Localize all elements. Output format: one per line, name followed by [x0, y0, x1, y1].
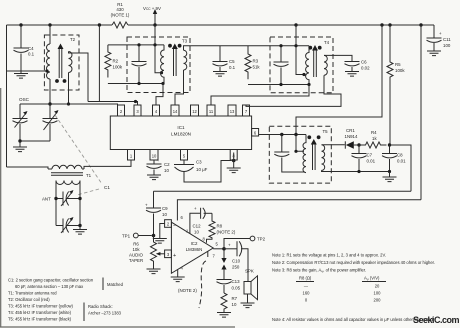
svg-text:0.01: 0.01: [367, 159, 376, 164]
ground ANT: [79, 226, 81, 230]
pin 2 inverting input: [165, 220, 172, 228]
svg-text:100k: 100k: [395, 68, 405, 73]
pin 7: [243, 105, 250, 116]
svg-text:+: +: [173, 253, 176, 259]
svg-text:10 μF: 10 μF: [196, 167, 208, 172]
wire T2 tap to left border: [7, 70, 48, 72]
svg-text:SeekiC.com: SeekiC.com: [413, 315, 460, 325]
svg-text:T3: T3: [182, 39, 188, 44]
svg-text:10: 10: [164, 168, 169, 173]
svg-text:LM1820N: LM1820N: [171, 132, 191, 137]
wire output to C13 with continuation arrows: [223, 251, 225, 259]
transformer T3 phasing dots: [168, 44, 172, 48]
svg-text:Radio Shack:: Radio Shack:: [88, 304, 113, 309]
capacitor C4: [20, 25, 22, 74]
ground pin 8: [227, 168, 241, 173]
capacitor C9: [153, 191, 155, 235]
wire detector ground rail: [322, 170, 390, 171]
capacitor C6: [345, 62, 360, 66]
transformer T4 phasing dots: [308, 46, 312, 50]
transformer T5 phasing dots: [307, 135, 311, 139]
svg-text:(NOTE 1): (NOTE 1): [111, 13, 130, 18]
svg-text:250: 250: [232, 265, 240, 270]
node output junction: [222, 247, 226, 251]
transformer T2 dashed box: [44, 35, 79, 90]
wire T4 primary bottom to pin 11: [211, 85, 309, 106]
transformer T5 primary winding: [303, 135, 306, 173]
wire T2 secondary bottom to OSC rail: [68, 73, 70, 105]
transformer T3 slug arrow: [174, 48, 177, 76]
svg-text:(NOTE 2): (NOTE 2): [217, 230, 236, 235]
svg-text:SPK: SPK: [245, 269, 254, 274]
resistor R2 100k with parallel loop: [105, 45, 111, 78]
node TP1: [138, 235, 151, 237]
node pin8 junction: [232, 159, 236, 163]
wire pin 6 to T5: [259, 134, 306, 136]
svg-text:+: +: [439, 31, 442, 36]
wire T3 primary bottom to pin 4: [156, 84, 163, 106]
pin 3: [134, 105, 141, 116]
svg-text:Note 4: All resistor values in: Note 4: All resistor values in ohms and …: [272, 317, 434, 322]
transformer T4 primary winding: [306, 46, 309, 85]
svg-text:20: 20: [375, 284, 380, 289]
svg-text:R2: R2: [113, 59, 119, 64]
brace NOTE 2 zobel: [199, 261, 206, 308]
node TP1 junction: [152, 234, 156, 238]
table underlines: [296, 281, 386, 283]
svg-text:10: 10: [194, 230, 199, 235]
capacitor C1 oscillator trimmer (left, variable): [19, 104, 21, 141]
svg-text:13: 13: [230, 109, 235, 114]
ground C4: [14, 74, 28, 79]
transformer T5 slug arrow: [313, 144, 316, 171]
transformer T4 dashed box: [270, 37, 333, 93]
pin 10: [150, 150, 158, 161]
svg-text:CR1: CR1: [346, 128, 355, 133]
scan edge artifacts: [0, 88, 235, 328]
node TP2: [224, 239, 250, 249]
resistor R4 1k: [359, 142, 387, 148]
wire Vcc drop to T4 tap: [296, 25, 304, 75]
capacitor C3 10uF: [183, 160, 185, 165]
pin 6: [252, 129, 259, 137]
svg-text:T4: T4: [324, 40, 330, 45]
svg-text:(NOTE 2): (NOTE 2): [178, 288, 197, 293]
svg-text:0.05: 0.05: [232, 286, 241, 291]
wire OSC bottom: [20, 140, 50, 142]
svg-text:C6: C6: [361, 60, 367, 65]
capacitor T5 tank: [282, 135, 305, 173]
svg-text:0.1: 0.1: [229, 65, 236, 70]
wire audio takeoff (node to wire A): [390, 145, 412, 191]
capacitor stage2 tank: [280, 46, 282, 85]
node AGC: [388, 143, 391, 146]
wire C10 to speaker: [241, 249, 248, 282]
op-amp U2 triangle IC2 LM386N: [171, 222, 213, 273]
transformer T2 primary winding: [49, 25, 51, 44]
svg-text:T2: Oscillator coil (red): T2: Oscillator coil (red): [8, 297, 50, 302]
svg-text:T1: Transistor antenna rod: T1: Transistor antenna rod: [8, 291, 57, 296]
svg-text:10: 10: [232, 302, 237, 307]
svg-text:+: +: [194, 206, 197, 211]
speaker SPK: [244, 282, 251, 295]
wire T4 secondary top to C6: [324, 55, 352, 61]
transformer T1 core: [51, 173, 83, 176]
wire OSC rail to IC pin 2: [20, 103, 118, 105]
pin 14: [171, 105, 179, 116]
svg-text:C11: C11: [443, 37, 451, 42]
node detector: [357, 143, 360, 146]
svg-text:C8: C8: [397, 153, 403, 158]
wire pin2 to ground: [160, 224, 165, 239]
svg-text:R7: R7: [232, 296, 238, 301]
svg-text:R4: R4: [371, 130, 377, 135]
capacitor C1 antenna section (variable): [56, 198, 80, 200]
svg-text:T3: 455 kHz IF transformer (ye: T3: 455 kHz IF transformer (yellow): [8, 304, 74, 309]
wire ANT tank rails: [56, 181, 80, 226]
svg-text:200: 200: [374, 298, 382, 303]
capacitor C5: [219, 46, 221, 72]
svg-text:C1: 2 section gang capacitor,: C1: 2 section gang capacitor, oscillator…: [8, 278, 94, 283]
svg-text:T5: T5: [323, 129, 329, 134]
pin 3 noninverting input: [165, 250, 172, 258]
wire stage2 tank bottom: [248, 84, 309, 86]
svg-text:+: +: [228, 243, 231, 248]
wire stage1 tank top: [108, 44, 164, 46]
svg-text:R5: R5: [395, 62, 401, 67]
svg-text:Matched: Matched: [107, 282, 124, 287]
IC op-amp U1 body IC1 LM1820N: [110, 116, 251, 150]
pin 2: [118, 105, 125, 116]
wire top Vcc bus: [7, 24, 435, 26]
wire Vcc line to T5 tap: [296, 135, 304, 152]
ground C6: [345, 72, 359, 77]
wire gang tuning dashed link: [55, 115, 102, 195]
svg-text:→: →: [156, 159, 160, 163]
transformer T4 secondary winding: [324, 55, 327, 75]
resistor R7: [221, 293, 227, 313]
transformer T3 dashed box: [127, 37, 190, 93]
svg-text:R8 (Ω): R8 (Ω): [299, 276, 312, 281]
capacitor C2: [153, 160, 155, 175]
svg-text:C4: C4: [28, 46, 34, 51]
pin 4: [153, 105, 160, 116]
wire A audio to volume: [154, 190, 412, 192]
transformer T3 secondary winding: [184, 50, 187, 70]
svg-text:AUDIO: AUDIO: [129, 253, 143, 258]
svg-text:T4: 455 kHz IF transformer (wh: T4: 455 kHz IF transformer (white): [8, 310, 72, 315]
svg-text:C9: C9: [162, 206, 168, 211]
svg-text:Note 1: R1 sets the voltage at: Note 1: R1 sets the voltage at pins 1, 2…: [272, 253, 386, 258]
svg-text:IC2: IC2: [191, 241, 198, 246]
capacitor C12: [201, 208, 206, 219]
svg-text:160: 160: [303, 291, 311, 296]
svg-text:OSC: OSC: [19, 97, 30, 102]
svg-text:430: 430: [116, 7, 124, 12]
svg-text:60 pF, antenna section – 130 p: 60 pF, antenna section – 130 pF max: [15, 284, 84, 289]
transformer T2 secondary winding: [69, 52, 73, 73]
wire T4 secondary bottom to pin 7: [246, 75, 341, 106]
svg-text:C5: C5: [229, 59, 235, 64]
pin 8: [230, 150, 237, 161]
svg-text:−: −: [173, 223, 176, 229]
svg-text:R6: R6: [133, 242, 139, 247]
diode CR1 1N914: [344, 141, 346, 148]
pin 11: [207, 105, 215, 116]
wire pin3 net from T2: [88, 102, 138, 106]
wire left border to T1 primary: [7, 167, 49, 169]
svg-text:0.1: 0.1: [28, 52, 35, 57]
svg-text:T5: 455 kHz IF transformer (bl: T5: 455 kHz IF transformer (black): [8, 317, 72, 322]
svg-text:1N914: 1N914: [345, 134, 358, 139]
wire left border: [6, 25, 8, 167]
ground pin4: [171, 277, 185, 282]
svg-text:100: 100: [374, 291, 382, 296]
ground C5: [213, 72, 227, 77]
ground pin2: [153, 239, 167, 244]
svg-text:0.01: 0.01: [397, 159, 406, 164]
wire bus right drop to audio V+ (x=421): [420, 25, 422, 200]
resistor R3 51k: [245, 46, 251, 79]
svg-text:C10: C10: [232, 259, 241, 264]
capacitor C11: [433, 25, 435, 51]
pin 1 gain: [190, 213, 200, 233]
svg-text:12: 12: [192, 109, 197, 114]
svg-text:C2: C2: [164, 162, 170, 167]
svg-text:C13: C13: [232, 279, 241, 284]
wire T3 secondary top / interstage to T4: [184, 46, 310, 51]
ground C2: [147, 175, 161, 180]
svg-text:TAPER: TAPER: [129, 258, 143, 263]
svg-text:ANT: ANT: [42, 197, 51, 202]
bracket matched: [102, 278, 104, 291]
svg-text:0.02: 0.02: [361, 66, 370, 71]
ground speaker: [247, 294, 249, 303]
transformer T3 primary winding: [161, 45, 164, 84]
svg-text:T2: T2: [70, 37, 76, 42]
wire bus-to-pin6 drop (x=382 to y=117 then left to 296): [296, 25, 382, 133]
resistor R5 100k: [389, 25, 391, 144]
svg-text:14: 14: [173, 109, 178, 114]
svg-text:100: 100: [443, 43, 451, 48]
capacitor stage1 tank: [138, 45, 140, 84]
wire T3 secondary bottom to pin 14: [175, 70, 184, 105]
capacitor C7: [358, 145, 360, 172]
parts list text: [8, 278, 124, 322]
capacitor C1 oscillator section (right, variable): [49, 104, 51, 141]
resistor R8: [207, 213, 216, 243]
wire B V+ to pin 6 of amp: [177, 200, 421, 221]
ground R6: [153, 268, 155, 270]
transformer T2 phasing dots: [55, 79, 59, 83]
wire Vcc drop to T3 tap: [155, 25, 161, 73]
svg-text:VCC + 9V: VCC + 9V: [143, 6, 161, 11]
resistor R6 10k AUDIO TAPER potentiometer: [151, 236, 157, 268]
node junction dots on bus: [19, 23, 22, 26]
ground R7: [217, 313, 231, 318]
svg-text:C7: C7: [367, 153, 373, 158]
svg-text:C3: C3: [196, 160, 202, 165]
pin 1: [128, 150, 135, 161]
svg-text:LM386N: LM386N: [186, 247, 203, 252]
svg-text:IC1: IC1: [177, 125, 185, 130]
svg-text:Archer –273 1383: Archer –273 1383: [88, 311, 122, 316]
wire T2 secondary top to pin3 net: [69, 52, 89, 102]
pin 5: [181, 150, 188, 161]
svg-text:C12: C12: [192, 224, 201, 229]
ground detector: [389, 172, 391, 178]
capacitor C13: [217, 280, 232, 284]
capacitor C8: [389, 145, 391, 172]
svg-text:TP2: TP2: [257, 237, 266, 242]
svg-text:+: +: [145, 203, 148, 208]
power Vcc +9V arrow: [154, 13, 156, 25]
svg-text:100k: 100k: [113, 65, 123, 70]
wire pin 1 to T1: [84, 160, 131, 169]
wire bus drop to pin3 net: [98, 25, 100, 102]
svg-text:10k: 10k: [132, 247, 140, 252]
transformer T4 slug arrow: [314, 50, 317, 78]
svg-text:10: 10: [162, 212, 167, 217]
resistor R1: [112, 22, 128, 28]
pin 13: [228, 105, 236, 116]
ground OSC: [19, 141, 21, 147]
svg-text:51k: 51k: [253, 65, 261, 70]
transformer T5 secondary winding: [322, 145, 325, 171]
transformer T2 slug arrow: [59, 48, 62, 78]
transformer T1 primary winding: [48, 165, 84, 169]
svg-text:C1: C1: [104, 185, 110, 190]
transformer T1 secondary winding: [56, 181, 80, 185]
capacitor C10: [224, 248, 237, 250]
svg-text:11: 11: [209, 109, 214, 114]
svg-text:1k: 1k: [372, 136, 377, 141]
bracket radio shack: [83, 303, 85, 322]
svg-text:R3: R3: [253, 59, 259, 64]
svg-text:T1: T1: [86, 173, 92, 178]
capacitor C1 antenna trimmer (variable): [56, 225, 80, 227]
wire stage1 tank bottom: [108, 83, 164, 85]
wire T5 secondary top to diode: [322, 144, 345, 146]
transformer T5 dashed box: [269, 126, 331, 183]
notes text: [272, 253, 435, 323]
svg-text:TP1: TP1: [122, 234, 131, 239]
svg-text:R8: R8: [217, 224, 223, 229]
svg-text:Note 2: Compensation R7/C13 no: Note 2: Compensation R7/C13 not required…: [272, 260, 435, 265]
pin 12: [191, 105, 199, 116]
ground C11: [427, 51, 441, 56]
